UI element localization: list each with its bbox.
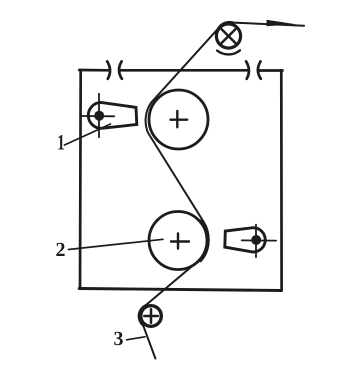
leader line for label 2 xyxy=(69,239,164,249)
film path xyxy=(139,22,304,359)
tension arm 1 crosshair horizontal xyxy=(81,115,114,117)
svg-text:1: 1 xyxy=(57,131,64,155)
tank frame top edge segment C xyxy=(258,69,283,72)
break symbol left, ")" hook xyxy=(107,61,110,78)
break symbol right, "(" hook xyxy=(258,61,261,78)
top guide roller diagonal cross xyxy=(222,29,236,43)
tank frame bottom edge xyxy=(79,289,281,291)
leader line for label 3 xyxy=(127,337,146,340)
break symbol right, ")" hook xyxy=(246,61,249,78)
tension arm 1 crosshair vertical xyxy=(98,94,100,137)
tank frame right edge xyxy=(280,70,283,290)
tension arm 1 pivot dot xyxy=(94,111,104,121)
tension arm 2 pivot dot xyxy=(251,235,261,245)
film wrap on lower drum rim xyxy=(200,221,208,261)
break symbol left, "(" hook xyxy=(119,61,122,78)
tension arm 1 body (teardrop) xyxy=(88,102,136,128)
tank frame top edge segment B xyxy=(120,69,248,72)
top guide roller xyxy=(216,24,240,48)
upper drum center cross xyxy=(171,111,188,127)
bottom guide roller cross xyxy=(144,309,157,322)
tank frame top edge segment A xyxy=(79,69,108,72)
tank frame left edge xyxy=(79,70,82,289)
lower drum center cross xyxy=(171,233,189,248)
leader line for label 1 xyxy=(65,124,111,145)
film direction arrow xyxy=(267,20,297,26)
tension arm 2 body (teardrop, mirrored) xyxy=(225,228,265,252)
top guide shoe arc xyxy=(217,50,240,54)
svg-text:2: 2 xyxy=(56,239,66,261)
tension arm 2 crosshair horizontal xyxy=(242,239,276,241)
lower drum xyxy=(149,212,207,270)
upper drum xyxy=(149,90,208,149)
tension arm 2 crosshair vertical xyxy=(255,225,257,258)
svg-text:3: 3 xyxy=(114,328,124,350)
bottom guide roller xyxy=(141,306,162,327)
